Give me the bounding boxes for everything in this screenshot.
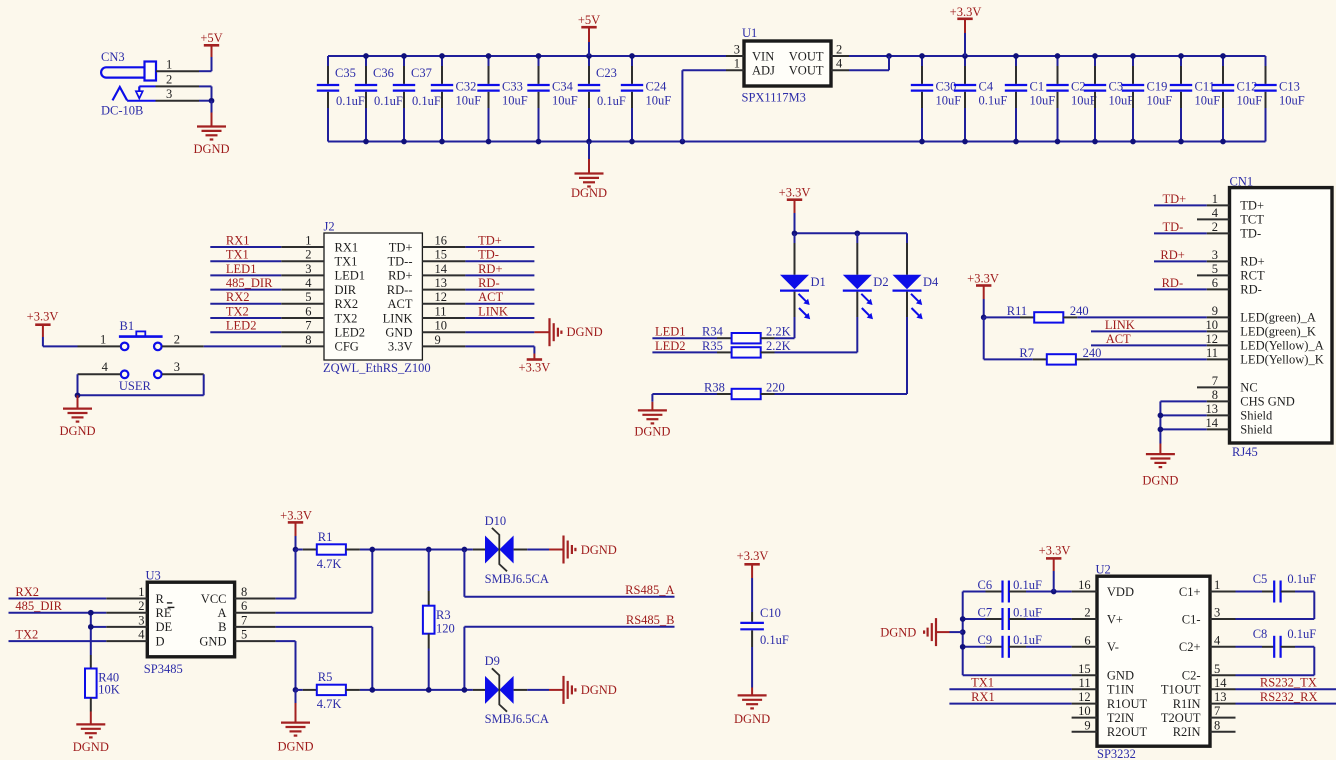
svg-text:VDD: VDD — [1107, 585, 1134, 599]
svg-text:RX1: RX1 — [335, 240, 359, 254]
svg-text:10: 10 — [435, 319, 448, 333]
junction VCC — [293, 547, 299, 553]
CN3 pin 1 — [156, 58, 199, 72]
svg-text:C35: C35 — [335, 66, 356, 80]
ground DGND at D9 — [549, 676, 617, 704]
wire net TX2 — [9, 640, 107, 642]
svg-text:DIR: DIR — [335, 283, 357, 297]
wire +5V rail — [328, 55, 726, 57]
svg-text:10uF: 10uF — [1030, 94, 1056, 108]
wire net LINK at CN1 — [1091, 330, 1207, 332]
svg-text:RD-: RD- — [1162, 276, 1184, 290]
svg-text:TCT: TCT — [1240, 213, 1264, 227]
wire DE tie — [91, 613, 106, 655]
svg-text:C12: C12 — [1237, 80, 1258, 94]
resistor R35 2.2K — [702, 339, 791, 358]
svg-text:RD-: RD- — [1240, 283, 1262, 297]
svg-text:2: 2 — [166, 73, 172, 87]
svg-text:RJ45: RJ45 — [1232, 445, 1258, 459]
wire net RD- — [465, 289, 534, 291]
capacitor C12 10uF — [1212, 56, 1262, 142]
svg-text:T1OUT: T1OUT — [1161, 683, 1201, 697]
LED D4 — [893, 233, 940, 319]
svg-text:7: 7 — [305, 319, 311, 333]
junction D2 — [854, 230, 860, 236]
junction B2n — [426, 687, 432, 693]
junction VDD — [1051, 589, 1057, 595]
svg-text:7: 7 — [1214, 704, 1220, 718]
svg-text:10uF: 10uF — [1147, 94, 1173, 108]
power +3.3V at J2 — [519, 354, 551, 375]
transceiver U2 SP3232 — [1072, 563, 1236, 760]
capacitor C19 10uF — [1122, 56, 1172, 142]
wire ADJ to ground rail — [682, 70, 726, 141]
capacitor C35 0.1uF — [317, 56, 365, 142]
svg-text:220: 220 — [766, 380, 785, 394]
svg-text:DGND: DGND — [880, 625, 916, 639]
power +5V at CN3 — [200, 31, 222, 57]
svg-text:16: 16 — [435, 233, 448, 247]
svg-text:C23: C23 — [596, 66, 617, 80]
svg-text:4.7K: 4.7K — [317, 697, 342, 711]
CN3 pin 3 — [127, 87, 199, 101]
svg-text:4: 4 — [102, 360, 109, 374]
svg-text:4: 4 — [305, 276, 312, 290]
svg-text:11: 11 — [1079, 676, 1091, 690]
svg-text:RD--: RD-- — [387, 283, 413, 297]
capacitor C7 0.1uF — [978, 605, 1042, 630]
wire net ACT — [465, 303, 534, 305]
svg-text:C1+: C1+ — [1179, 585, 1201, 599]
svg-text:15: 15 — [1078, 662, 1091, 676]
svg-text:4: 4 — [1212, 206, 1219, 220]
junction A3 — [462, 547, 468, 553]
capacitor C32 10uF — [431, 56, 481, 142]
junctions on +3.3V rail — [886, 53, 1226, 59]
ground DGND at CN1 — [1142, 444, 1178, 488]
svg-text:SPX1117M3: SPX1117M3 — [742, 91, 806, 105]
svg-text:RD+: RD+ — [1160, 248, 1184, 262]
svg-text:10K: 10K — [98, 682, 120, 696]
svg-text:240: 240 — [1070, 304, 1089, 318]
U1 pin 3 — [726, 55, 744, 57]
svg-text:TD+: TD+ — [1240, 199, 1264, 213]
wire U2 left bus — [963, 592, 1072, 676]
capacitor C33 10uF — [477, 56, 527, 142]
svg-text:14: 14 — [435, 262, 448, 276]
junction at B1 ground — [75, 392, 81, 398]
wire R35 to D2 — [775, 351, 858, 353]
junction B3n — [462, 687, 468, 693]
svg-text:RS232_RX: RS232_RX — [1260, 690, 1318, 704]
svg-text:CHS GND: CHS GND — [1240, 395, 1295, 409]
power +3.3V at CN1 — [967, 271, 999, 317]
wire D2 to R35 — [856, 317, 858, 352]
wire ground stub — [588, 142, 590, 160]
wire net ACT at CN1 — [1091, 344, 1207, 346]
resistor R7 240 — [1019, 346, 1101, 365]
resistor R11 240 — [1007, 304, 1089, 323]
junction A1 — [369, 547, 375, 553]
svg-text:R2IN: R2IN — [1173, 725, 1201, 739]
svg-text:U3: U3 — [146, 569, 161, 583]
svg-text:3: 3 — [305, 262, 311, 276]
svg-text:TX2: TX2 — [15, 628, 38, 642]
U1 pin 4 — [831, 69, 849, 71]
wire D4 to R38 — [906, 317, 908, 394]
wire LED1 to R34 — [652, 337, 717, 339]
wire net B lower — [360, 689, 473, 691]
svg-text:+3.3V: +3.3V — [1039, 544, 1071, 558]
svg-text:2: 2 — [174, 333, 180, 347]
regulator U1 SPX1117M3 — [734, 26, 843, 105]
svg-text:10uF: 10uF — [1071, 94, 1097, 108]
svg-text:3: 3 — [174, 360, 180, 374]
svg-text:C1: C1 — [1030, 80, 1045, 94]
svg-text:B: B — [218, 620, 226, 634]
svg-text:10uF: 10uF — [936, 94, 962, 108]
svg-text:3: 3 — [1212, 248, 1218, 262]
wire R7 to CN1 pin11 — [1090, 358, 1207, 360]
svg-text:Shield: Shield — [1240, 409, 1273, 423]
svg-text:T2OUT: T2OUT — [1161, 711, 1201, 725]
power +3.3V at U2 — [1039, 544, 1071, 592]
capacitor C8 0.1uF — [1236, 627, 1317, 658]
svg-text:C32: C32 — [456, 80, 477, 94]
svg-text:8: 8 — [241, 585, 247, 599]
resistor R1 4.7K — [303, 530, 360, 571]
svg-text:0.1uF: 0.1uF — [597, 94, 626, 108]
power +3.3V at B1 — [27, 310, 59, 347]
svg-text:+3.3V: +3.3V — [737, 549, 769, 563]
svg-text:R3: R3 — [436, 608, 451, 622]
svg-text:0.1uF: 0.1uF — [979, 94, 1008, 108]
wire net TD- at CN1 — [1154, 232, 1207, 234]
wire LED2 to R35 — [652, 351, 717, 353]
svg-text:8: 8 — [1214, 718, 1220, 732]
svg-text:VOUT: VOUT — [789, 49, 824, 63]
svg-text:LINK: LINK — [478, 304, 508, 318]
wire net LED1 — [210, 274, 281, 276]
power +3.3V at LEDs — [779, 186, 811, 234]
svg-text:DGND: DGND — [634, 425, 670, 439]
svg-text:+3.3V: +3.3V — [950, 5, 982, 19]
svg-text:15: 15 — [435, 248, 448, 262]
wire pin1 to +5V — [199, 57, 212, 71]
capacitor C30 10uF — [911, 56, 961, 142]
svg-text:R38: R38 — [704, 380, 725, 394]
resistor R38 220 — [704, 380, 785, 399]
svg-text:ZQWL_EthRS_Z100: ZQWL_EthRS_Z100 — [323, 361, 431, 375]
junction A2 — [426, 547, 432, 553]
svg-text:120: 120 — [436, 621, 455, 635]
CN3 pin 2 — [139, 73, 199, 87]
svg-text:2: 2 — [1212, 220, 1218, 234]
wire net RX1 — [210, 246, 281, 248]
svg-text:ACT: ACT — [1106, 332, 1131, 346]
svg-text:R7: R7 — [1019, 346, 1034, 360]
svg-text:8: 8 — [1212, 388, 1218, 402]
svg-text:ACT: ACT — [388, 297, 413, 311]
svg-text:LED(Yellow)_K: LED(Yellow)_K — [1240, 353, 1323, 367]
wire net RS232_TX — [1236, 688, 1336, 690]
svg-text:TD-: TD- — [1240, 227, 1261, 241]
wire D10 to ground — [527, 549, 549, 551]
svg-text:RS485_A: RS485_A — [625, 583, 674, 597]
svg-text:GND: GND — [199, 634, 226, 648]
svg-text:2.2K: 2.2K — [766, 339, 791, 353]
svg-text:10uF: 10uF — [456, 94, 482, 108]
svg-text:C6: C6 — [978, 578, 993, 592]
junction D1 — [792, 230, 798, 236]
svg-text:D10: D10 — [485, 514, 507, 528]
wire pin2 down — [199, 86, 212, 100]
power +3.3V at R1 — [280, 508, 312, 549]
ground DGND at cap bank — [571, 159, 607, 200]
svg-text:13: 13 — [435, 276, 448, 290]
ground DGND at C10 — [734, 688, 770, 727]
svg-text:8: 8 — [305, 333, 311, 347]
wire J2 pin10 GND — [465, 331, 534, 333]
svg-text:C4: C4 — [979, 80, 994, 94]
svg-text:1: 1 — [166, 58, 172, 72]
svg-text:3: 3 — [1214, 606, 1220, 620]
svg-text:2: 2 — [836, 43, 842, 57]
svg-text:6: 6 — [1084, 633, 1090, 647]
svg-text:LED1: LED1 — [226, 262, 257, 276]
svg-text:4: 4 — [836, 57, 843, 71]
ground DGND at D10 — [549, 536, 617, 564]
wire C5 to C1- — [1236, 592, 1315, 620]
svg-text:6: 6 — [305, 304, 311, 318]
svg-text:RCT: RCT — [1240, 269, 1265, 283]
svg-text:C30: C30 — [936, 80, 957, 94]
svg-text:U2: U2 — [1096, 563, 1111, 577]
junction DIR-DE — [88, 624, 94, 630]
svg-text:LED2: LED2 — [335, 326, 366, 340]
svg-text:10uF: 10uF — [552, 94, 578, 108]
capacitor C3 10uF — [1084, 56, 1134, 142]
wire R5 left — [296, 689, 303, 691]
diode D10 SMBJ6.5CA — [473, 514, 549, 586]
svg-text:0.1uF: 0.1uF — [412, 94, 441, 108]
junction DIR-RE — [88, 610, 94, 616]
svg-text:SP3232: SP3232 — [1097, 747, 1136, 760]
capacitor C36 0.1uF — [355, 56, 403, 142]
wire +3.3V down to R7 — [984, 317, 1033, 359]
svg-text:0.1uF: 0.1uF — [374, 94, 403, 108]
svg-text:10uF: 10uF — [502, 94, 528, 108]
wire R11 to CN1 pin9 — [1077, 316, 1206, 318]
svg-text:C1-: C1- — [1182, 612, 1201, 626]
junctions on +5V rail — [363, 53, 635, 59]
capacitor C9 0.1uF — [978, 633, 1042, 658]
power +3.3V at C10 — [737, 549, 769, 612]
svg-text:R2OUT: R2OUT — [1107, 725, 1148, 739]
wire ground rail — [328, 141, 1266, 143]
svg-text:D1: D1 — [811, 275, 826, 289]
svg-text:RS232_TX: RS232_TX — [1260, 676, 1317, 690]
wire net TD+ at CN1 — [1154, 204, 1207, 206]
wire net TX2 — [210, 317, 281, 319]
junctions on ground rail — [363, 139, 1226, 145]
LED D1 — [780, 233, 826, 319]
svg-text:R35: R35 — [702, 339, 723, 353]
svg-text:R: R — [156, 592, 165, 606]
capacitor C2 10uF — [1046, 56, 1096, 142]
wire net LINK — [465, 317, 534, 319]
capacitor C6 0.1uF — [978, 578, 1042, 603]
ground DGND at R38 — [634, 402, 670, 439]
resistor R3 120 — [423, 550, 455, 690]
resistor R5 4.7K — [303, 670, 360, 711]
svg-text:USER: USER — [119, 379, 152, 393]
svg-text:+5V: +5V — [578, 13, 600, 27]
svg-text:C2: C2 — [1071, 80, 1086, 94]
svg-text:12: 12 — [1206, 332, 1219, 346]
wire pin3 — [199, 100, 212, 102]
svg-text:LED1: LED1 — [335, 269, 366, 283]
svg-text:LED2: LED2 — [655, 339, 686, 353]
svg-text:TD-: TD- — [1163, 220, 1184, 234]
power +3.3V at cap bank — [950, 5, 982, 56]
svg-text:0.1uF: 0.1uF — [760, 633, 789, 647]
wire net RD- at CN1 — [1154, 288, 1207, 290]
svg-text:240: 240 — [1083, 346, 1102, 360]
svg-text:DGND: DGND — [59, 424, 95, 438]
svg-text:12: 12 — [1078, 690, 1091, 704]
svg-text:C9: C9 — [978, 633, 993, 647]
pushbutton B1 USER — [78, 319, 204, 393]
junction C9 — [960, 644, 966, 650]
svg-text:R1OUT: R1OUT — [1107, 697, 1148, 711]
power +5V at cap bank — [578, 13, 600, 56]
wire C10 to ground — [751, 647, 753, 688]
svg-text:9: 9 — [1212, 304, 1218, 318]
ground DGND at R5 — [277, 690, 313, 754]
svg-text:DGND: DGND — [581, 543, 617, 557]
svg-text:DE: DE — [156, 620, 173, 634]
svg-text:B1: B1 — [120, 319, 135, 333]
svg-text:C34: C34 — [552, 80, 574, 94]
svg-text:TX1: TX1 — [226, 248, 249, 262]
svg-text:J2: J2 — [324, 220, 335, 234]
wire LED rail — [795, 232, 908, 234]
wire net RS485_A — [464, 550, 674, 597]
svg-text:10uF: 10uF — [1109, 94, 1135, 108]
svg-text:VIN: VIN — [752, 49, 774, 63]
svg-text:+3.3V: +3.3V — [519, 361, 551, 375]
svg-text:11: 11 — [435, 304, 447, 318]
junction C7 — [960, 616, 966, 622]
svg-text:9: 9 — [435, 333, 441, 347]
svg-text:0.1uF: 0.1uF — [1013, 578, 1042, 592]
wire to B1 pin1 — [43, 345, 78, 347]
svg-text:TX1: TX1 — [971, 676, 994, 690]
wire net RS485_B — [464, 627, 674, 690]
wire GND pin5 — [276, 641, 296, 690]
svg-text:CFG: CFG — [335, 340, 359, 354]
capacitor C10 0.1uF — [740, 606, 789, 647]
U1 pin 2 — [831, 55, 849, 57]
svg-text:485_DIR: 485_DIR — [226, 276, 273, 290]
svg-text:RX2: RX2 — [226, 290, 250, 304]
wire to R11 — [984, 316, 1020, 318]
svg-text:RD-: RD- — [478, 276, 500, 290]
svg-text:TD--: TD-- — [388, 255, 413, 269]
wire to ground — [211, 101, 213, 113]
svg-text:V+: V+ — [1107, 612, 1123, 626]
junction shield 14 — [1158, 427, 1164, 433]
svg-text:DGND: DGND — [567, 325, 603, 339]
svg-text:C33: C33 — [502, 80, 523, 94]
svg-text:R1IN: R1IN — [1173, 697, 1201, 711]
svg-text:D2: D2 — [873, 275, 888, 289]
wire net RS232_RX — [1236, 703, 1336, 705]
svg-text:TD-: TD- — [478, 248, 499, 262]
svg-text:2.2K: 2.2K — [766, 325, 791, 339]
wire net 485_DIR — [9, 612, 107, 614]
svg-text:0.1uF: 0.1uF — [1013, 605, 1042, 619]
wire net RX2 — [210, 303, 281, 305]
svg-text:+3.3V: +3.3V — [280, 508, 312, 522]
svg-text:LINK: LINK — [1105, 318, 1135, 332]
capacitor C37 0.1uF — [393, 56, 441, 142]
svg-text:Shield: Shield — [1240, 423, 1273, 437]
svg-text:C7: C7 — [978, 605, 993, 619]
wire net LED2 — [210, 331, 281, 333]
junction shield 13 — [1158, 413, 1164, 419]
ground DGND at U2 — [880, 618, 963, 646]
svg-text:0.1uF: 0.1uF — [1287, 572, 1316, 586]
wire net RX1 — [949, 703, 1071, 705]
svg-text:14: 14 — [1206, 416, 1219, 430]
junction DGND bus — [960, 629, 966, 635]
svg-text:ADJ: ADJ — [752, 64, 775, 78]
connector CN3 DC-10B barrel jack — [101, 50, 156, 118]
svg-text:C24: C24 — [646, 80, 668, 94]
wire B1 pins 3-4 loop — [78, 374, 204, 395]
svg-text:9: 9 — [1084, 718, 1090, 732]
svg-text:RS485_B: RS485_B — [626, 613, 675, 627]
svg-text:5: 5 — [241, 628, 247, 642]
wire R34 to D1 — [775, 337, 795, 339]
svg-text:TD+: TD+ — [478, 233, 502, 247]
wire C6 to VDD — [1026, 591, 1072, 593]
junction B1n — [369, 687, 375, 693]
svg-text:2: 2 — [138, 599, 144, 613]
svg-text:R34: R34 — [702, 325, 724, 339]
svg-text:3: 3 — [138, 613, 144, 627]
svg-text:10: 10 — [1078, 704, 1091, 718]
svg-text:12: 12 — [435, 290, 448, 304]
capacitor C4 0.1uF — [954, 56, 1008, 142]
svg-text:+3.3V: +3.3V — [27, 310, 59, 324]
connector CN1 RJ45 — [1197, 175, 1332, 460]
svg-text:2: 2 — [305, 248, 311, 262]
resistor R34 2.2K — [702, 325, 791, 344]
svg-text:DC-10B: DC-10B — [101, 104, 143, 118]
svg-text:TX2: TX2 — [335, 311, 358, 325]
wire C9 to V- — [1026, 646, 1072, 648]
svg-text:7: 7 — [241, 613, 247, 627]
svg-text:5: 5 — [1212, 262, 1218, 276]
svg-text:TX1: TX1 — [335, 255, 358, 269]
svg-text:RX2: RX2 — [335, 297, 359, 311]
svg-text:V-: V- — [1107, 640, 1119, 654]
svg-text:C13: C13 — [1279, 80, 1300, 94]
svg-text:C3: C3 — [1109, 80, 1124, 94]
